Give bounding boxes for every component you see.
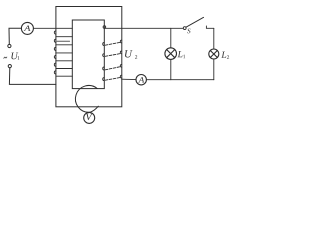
- label U1 subscript 1: [18, 56, 20, 60]
- wire from A1 to primary coil: [33, 27, 72, 29]
- voltmeter lead short arc: [90, 106, 99, 112]
- secondary winding diagonal turns: [105, 42, 121, 80]
- label V inside voltmeter: [86, 114, 93, 120]
- switch fixed contact and wire to corner: [206, 26, 213, 28]
- switch S pivot: [183, 27, 186, 30]
- lamp L2: [209, 49, 219, 59]
- lamp L2 bottom wire: [213, 59, 215, 80]
- source terminal bottom: [8, 65, 11, 68]
- label U1 letter U: [11, 53, 18, 60]
- switch S blade: [186, 17, 204, 27]
- secondary winding loop arcs on core edge: [103, 43, 105, 81]
- secondary winding terminal bump top: [103, 26, 106, 29]
- label A inside ammeter A1: [24, 26, 31, 31]
- ammeter A1: [21, 22, 33, 34]
- label ~ (AC) beside source: [4, 57, 7, 59]
- wire down to lamp L2: [213, 28, 215, 49]
- wire from top rail down to lamp L1: [170, 28, 172, 48]
- label L1 subscript 1: [183, 55, 185, 59]
- stray mid dash inside primary: [57, 40, 70, 42]
- wire secondary top to switch: [104, 27, 182, 29]
- primary winding turns: [56, 37, 72, 76]
- label S for switch: [187, 29, 190, 34]
- label L2 subscript 2: [227, 55, 229, 59]
- label A inside ammeter A2: [138, 77, 144, 82]
- lamp L1: [165, 48, 177, 60]
- lamp L1 bottom wire: [170, 59, 172, 79]
- wire from top terminal up and right to ammeter A1: [9, 28, 21, 44]
- label U2 letter U: [125, 50, 133, 57]
- source terminal top: [8, 44, 11, 47]
- label L2 letter L: [221, 52, 226, 58]
- secondary winding loop arcs on right frame edge: [120, 40, 121, 78]
- label L1 letter L: [177, 51, 182, 57]
- transformer winding frame: [56, 7, 122, 107]
- voltmeter V: [84, 112, 95, 123]
- wire from bottom terminal down and right to winding frame: [9, 68, 56, 85]
- wire secondary bottom to ammeter A2: [122, 78, 136, 80]
- ammeter A2: [136, 75, 146, 85]
- bottom rail of lamp branch: [146, 79, 213, 81]
- transformer core: [72, 20, 104, 89]
- voltmeter lead long arc: [75, 86, 97, 113]
- label U2 subscript 2: [135, 55, 137, 59]
- primary winding loop arcs: [54, 31, 56, 74]
